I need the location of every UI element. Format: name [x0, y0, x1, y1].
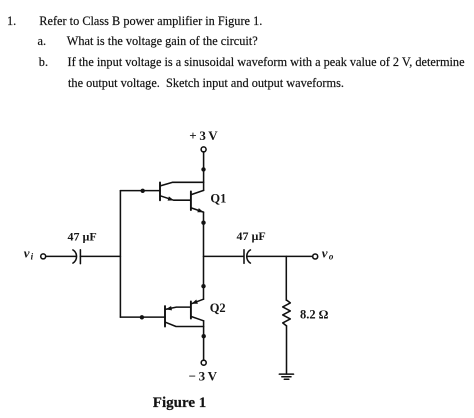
- label RL 8.2ohm: [300, 307, 329, 321]
- label C1 47uF: [68, 229, 97, 243]
- problem text: [7, 14, 16, 29]
- wire input right: [80, 255, 120, 257]
- svg-text:8.2 Ω: 8.2 Ω: [300, 307, 329, 321]
- svg-text:v: v: [322, 246, 328, 261]
- wire resistor top: [285, 256, 287, 300]
- label vo: [322, 246, 334, 262]
- svg-text:i: i: [31, 252, 34, 262]
- svg-text:+ 3 V: + 3 V: [189, 128, 218, 143]
- svg-text:o: o: [329, 252, 334, 262]
- transistor Q1a driver (NPN): [160, 182, 204, 200]
- label Q1: [210, 192, 226, 206]
- terminal vo: [313, 254, 318, 259]
- wire input left: [46, 255, 77, 257]
- svg-text:v: v: [24, 246, 30, 261]
- wire base rail top: [120, 190, 160, 192]
- wire resistor bottom: [286, 326, 288, 374]
- capacitor C2 47uF: [244, 250, 250, 263]
- terminal +3V: [201, 147, 206, 152]
- label C2 47uF: [237, 229, 266, 243]
- svg-text:Q1: Q1: [210, 192, 226, 206]
- transistor Q1 (NPN): [191, 190, 204, 212]
- wire output horizontal: [204, 255, 244, 257]
- label vi: [24, 246, 34, 262]
- wire output right: [247, 255, 313, 257]
- capacitor C1 47uF: [73, 250, 81, 264]
- ground: [279, 374, 293, 379]
- junction dot Q2 emitter: [201, 284, 205, 288]
- svg-text:47 µF: 47 µF: [68, 229, 97, 243]
- junction dot bottom base: [140, 315, 144, 319]
- junction dot bottom supply: [202, 334, 206, 338]
- svg-text:− 3 V: − 3 V: [189, 369, 218, 384]
- label -3V: [189, 369, 218, 384]
- svg-text:47 µF: 47 µF: [237, 229, 266, 243]
- caption Figure 1: [153, 395, 206, 412]
- terminal -3V: [201, 360, 206, 365]
- junction dot top base: [141, 189, 145, 193]
- label Q2: [210, 301, 226, 315]
- junction dot top supply: [201, 167, 205, 171]
- svg-text:Q2: Q2: [210, 301, 226, 315]
- terminal vi: [41, 254, 46, 259]
- wire base rail bottom: [120, 316, 165, 318]
- transistor Q2a driver (PNP): [165, 306, 204, 327]
- transistor Q2 (PNP): [191, 299, 204, 321]
- wire Q2 collector vertical: [203, 321, 205, 360]
- wire +3V vertical: [203, 152, 205, 191]
- junction dot Q1 emitter: [201, 221, 205, 225]
- resistor RL 8.2ohm: [283, 300, 291, 326]
- wire output node vertical: [203, 212, 205, 299]
- label +3V: [189, 128, 218, 143]
- wire left rail vertical: [119, 191, 121, 318]
